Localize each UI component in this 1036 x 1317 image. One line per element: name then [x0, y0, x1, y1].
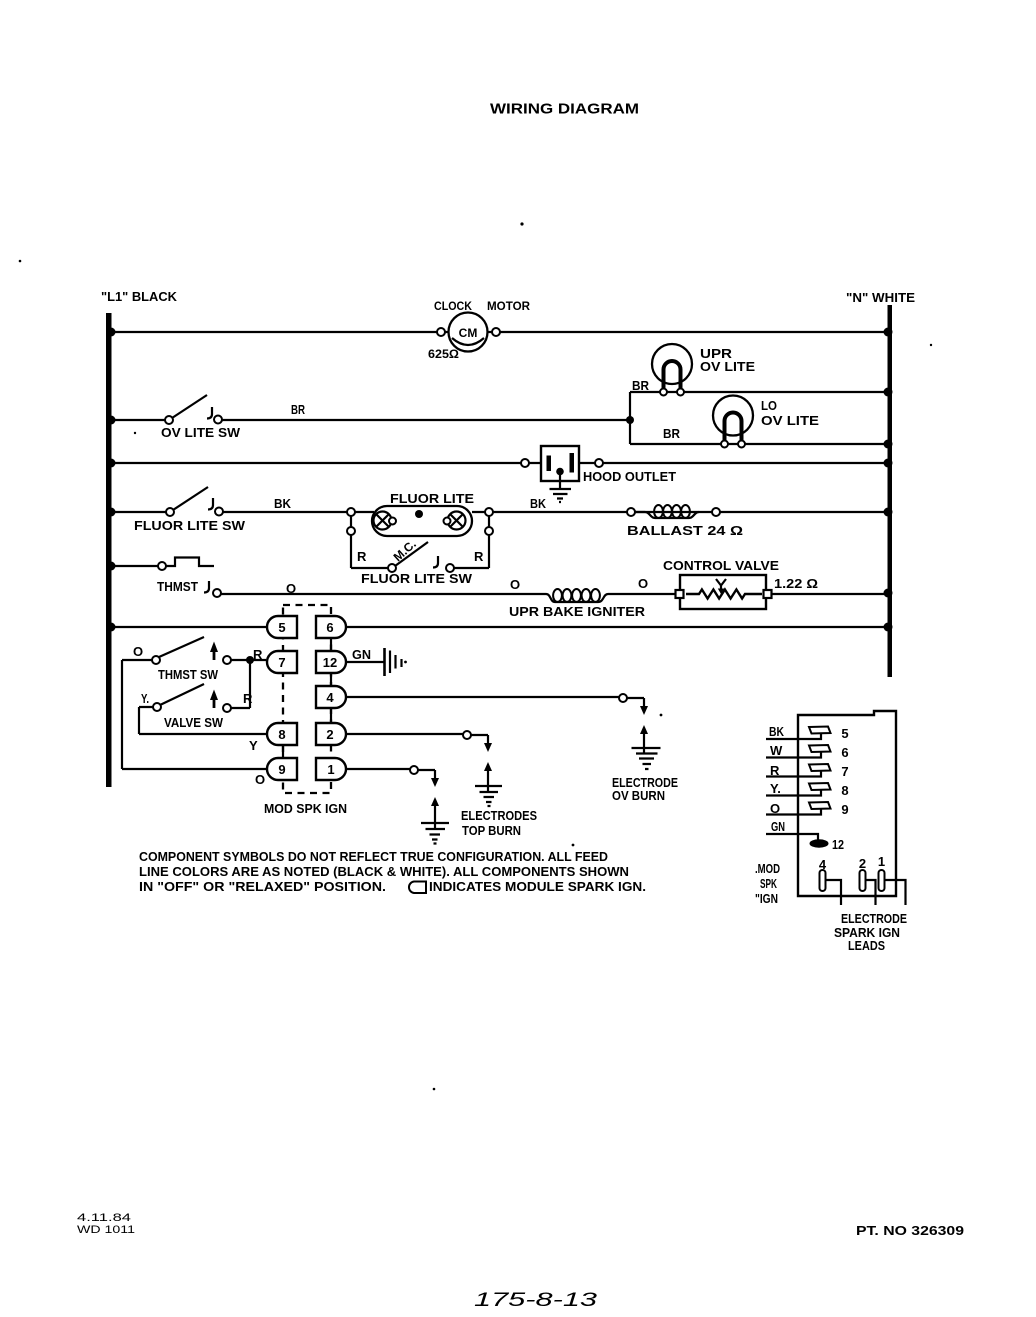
svg-text:LINE COLORS ARE AS NOTED (BLAC: LINE COLORS ARE AS NOTED (BLACK & WHITE)…: [139, 864, 629, 879]
svg-text:PT. NO 326309: PT. NO 326309: [856, 1223, 964, 1238]
svg-text:6: 6: [326, 620, 333, 635]
svg-text:6: 6: [841, 745, 848, 760]
svg-text:BK: BK: [769, 724, 784, 739]
svg-text:IN "OFF" OR "RELAXED" POSITION: IN "OFF" OR "RELAXED" POSITION.: [139, 879, 386, 894]
svg-text:WIRING DIAGRAM: WIRING DIAGRAM: [490, 101, 639, 118]
svg-text:BR: BR: [632, 378, 650, 393]
svg-text:OV BURN: OV BURN: [612, 788, 665, 803]
svg-text:FLUOR LITE SW: FLUOR LITE SW: [361, 571, 473, 586]
svg-text:CM: CM: [459, 326, 478, 340]
svg-text:1: 1: [878, 854, 885, 869]
svg-text:12: 12: [323, 655, 337, 670]
svg-text:625Ω: 625Ω: [428, 347, 459, 361]
svg-text:R: R: [253, 647, 263, 662]
svg-text:2: 2: [326, 727, 333, 742]
svg-text:1.22 Ω: 1.22 Ω: [774, 576, 818, 591]
svg-text:O: O: [255, 772, 265, 787]
svg-text:O: O: [510, 577, 520, 592]
svg-text:Y.: Y.: [141, 691, 149, 706]
svg-text:OV LITE: OV LITE: [700, 359, 755, 374]
svg-text:BR: BR: [663, 426, 681, 441]
svg-text:OV LITE SW: OV LITE SW: [161, 425, 241, 440]
svg-text:GN: GN: [771, 819, 785, 834]
svg-text:4.11.84: 4.11.84: [77, 1212, 131, 1224]
svg-text:O: O: [133, 644, 143, 659]
svg-text:O: O: [286, 581, 296, 596]
svg-text:R: R: [770, 763, 780, 778]
svg-text:GN: GN: [352, 647, 371, 662]
svg-text:TOP BURN: TOP BURN: [462, 823, 521, 838]
svg-text:THMST: THMST: [157, 579, 198, 594]
svg-text:CONTROL VALVE: CONTROL VALVE: [663, 558, 779, 573]
svg-text:7: 7: [841, 764, 848, 779]
svg-text:BALLAST 24 Ω: BALLAST 24 Ω: [627, 523, 743, 538]
svg-text:W: W: [770, 743, 783, 758]
svg-text:LEADS: LEADS: [848, 938, 885, 953]
svg-text:HOOD OUTLET: HOOD OUTLET: [583, 469, 676, 484]
svg-text:COMPONENT SYMBOLS DO NOT REFLE: COMPONENT SYMBOLS DO NOT REFLECT TRUE CO…: [139, 849, 608, 864]
svg-text:MOTOR: MOTOR: [487, 299, 530, 313]
svg-text:R: R: [357, 549, 367, 564]
svg-text:9: 9: [278, 762, 285, 777]
svg-text:BK: BK: [530, 496, 547, 511]
svg-text:8: 8: [278, 727, 285, 742]
svg-text:R: R: [474, 549, 484, 564]
svg-text:Y.: Y.: [770, 781, 781, 796]
svg-text:1: 1: [327, 762, 334, 777]
svg-text:VALVE SW: VALVE SW: [164, 715, 224, 730]
svg-text:MOD SPK IGN: MOD SPK IGN: [264, 801, 347, 816]
svg-text:FLUOR LITE: FLUOR LITE: [390, 491, 474, 506]
svg-text:"IGN: "IGN: [755, 891, 778, 906]
svg-text:9: 9: [841, 802, 848, 817]
svg-text:175-8-13: 175-8-13: [474, 1290, 598, 1311]
svg-text:4: 4: [819, 857, 827, 872]
svg-text:OV LITE: OV LITE: [761, 413, 819, 428]
svg-text:WD 1011: WD 1011: [77, 1224, 135, 1236]
svg-text:CLOCK: CLOCK: [434, 299, 472, 313]
svg-text:5: 5: [841, 726, 848, 741]
svg-text:BR: BR: [291, 402, 305, 417]
svg-text:2: 2: [859, 856, 866, 871]
svg-text:8: 8: [841, 783, 848, 798]
svg-text:ELECTRODE: ELECTRODE: [841, 911, 907, 926]
svg-text:12: 12: [832, 837, 844, 852]
svg-text:7: 7: [278, 655, 285, 670]
svg-text:ELECTRODES: ELECTRODES: [461, 808, 537, 823]
svg-text:.MOD: .MOD: [755, 861, 780, 876]
svg-text:Y: Y: [249, 738, 258, 753]
svg-text:R: R: [243, 691, 253, 706]
svg-text:BK: BK: [274, 496, 292, 511]
svg-text:INDICATES MODULE SPARK IGN.: INDICATES MODULE SPARK IGN.: [429, 879, 646, 894]
svg-text:"L1" BLACK: "L1" BLACK: [101, 289, 178, 304]
svg-text:5: 5: [278, 620, 285, 635]
svg-text:O: O: [638, 576, 648, 591]
svg-text:4: 4: [326, 690, 334, 705]
svg-text:THMST SW: THMST SW: [158, 667, 219, 682]
svg-text:UPR BAKE IGNITER: UPR BAKE IGNITER: [509, 604, 646, 619]
svg-text:SPK: SPK: [760, 876, 777, 891]
svg-text:LO: LO: [761, 398, 777, 413]
svg-text:O: O: [770, 801, 780, 816]
svg-text:FLUOR LITE SW: FLUOR LITE SW: [134, 518, 246, 533]
svg-text:"N" WHITE: "N" WHITE: [846, 290, 915, 305]
